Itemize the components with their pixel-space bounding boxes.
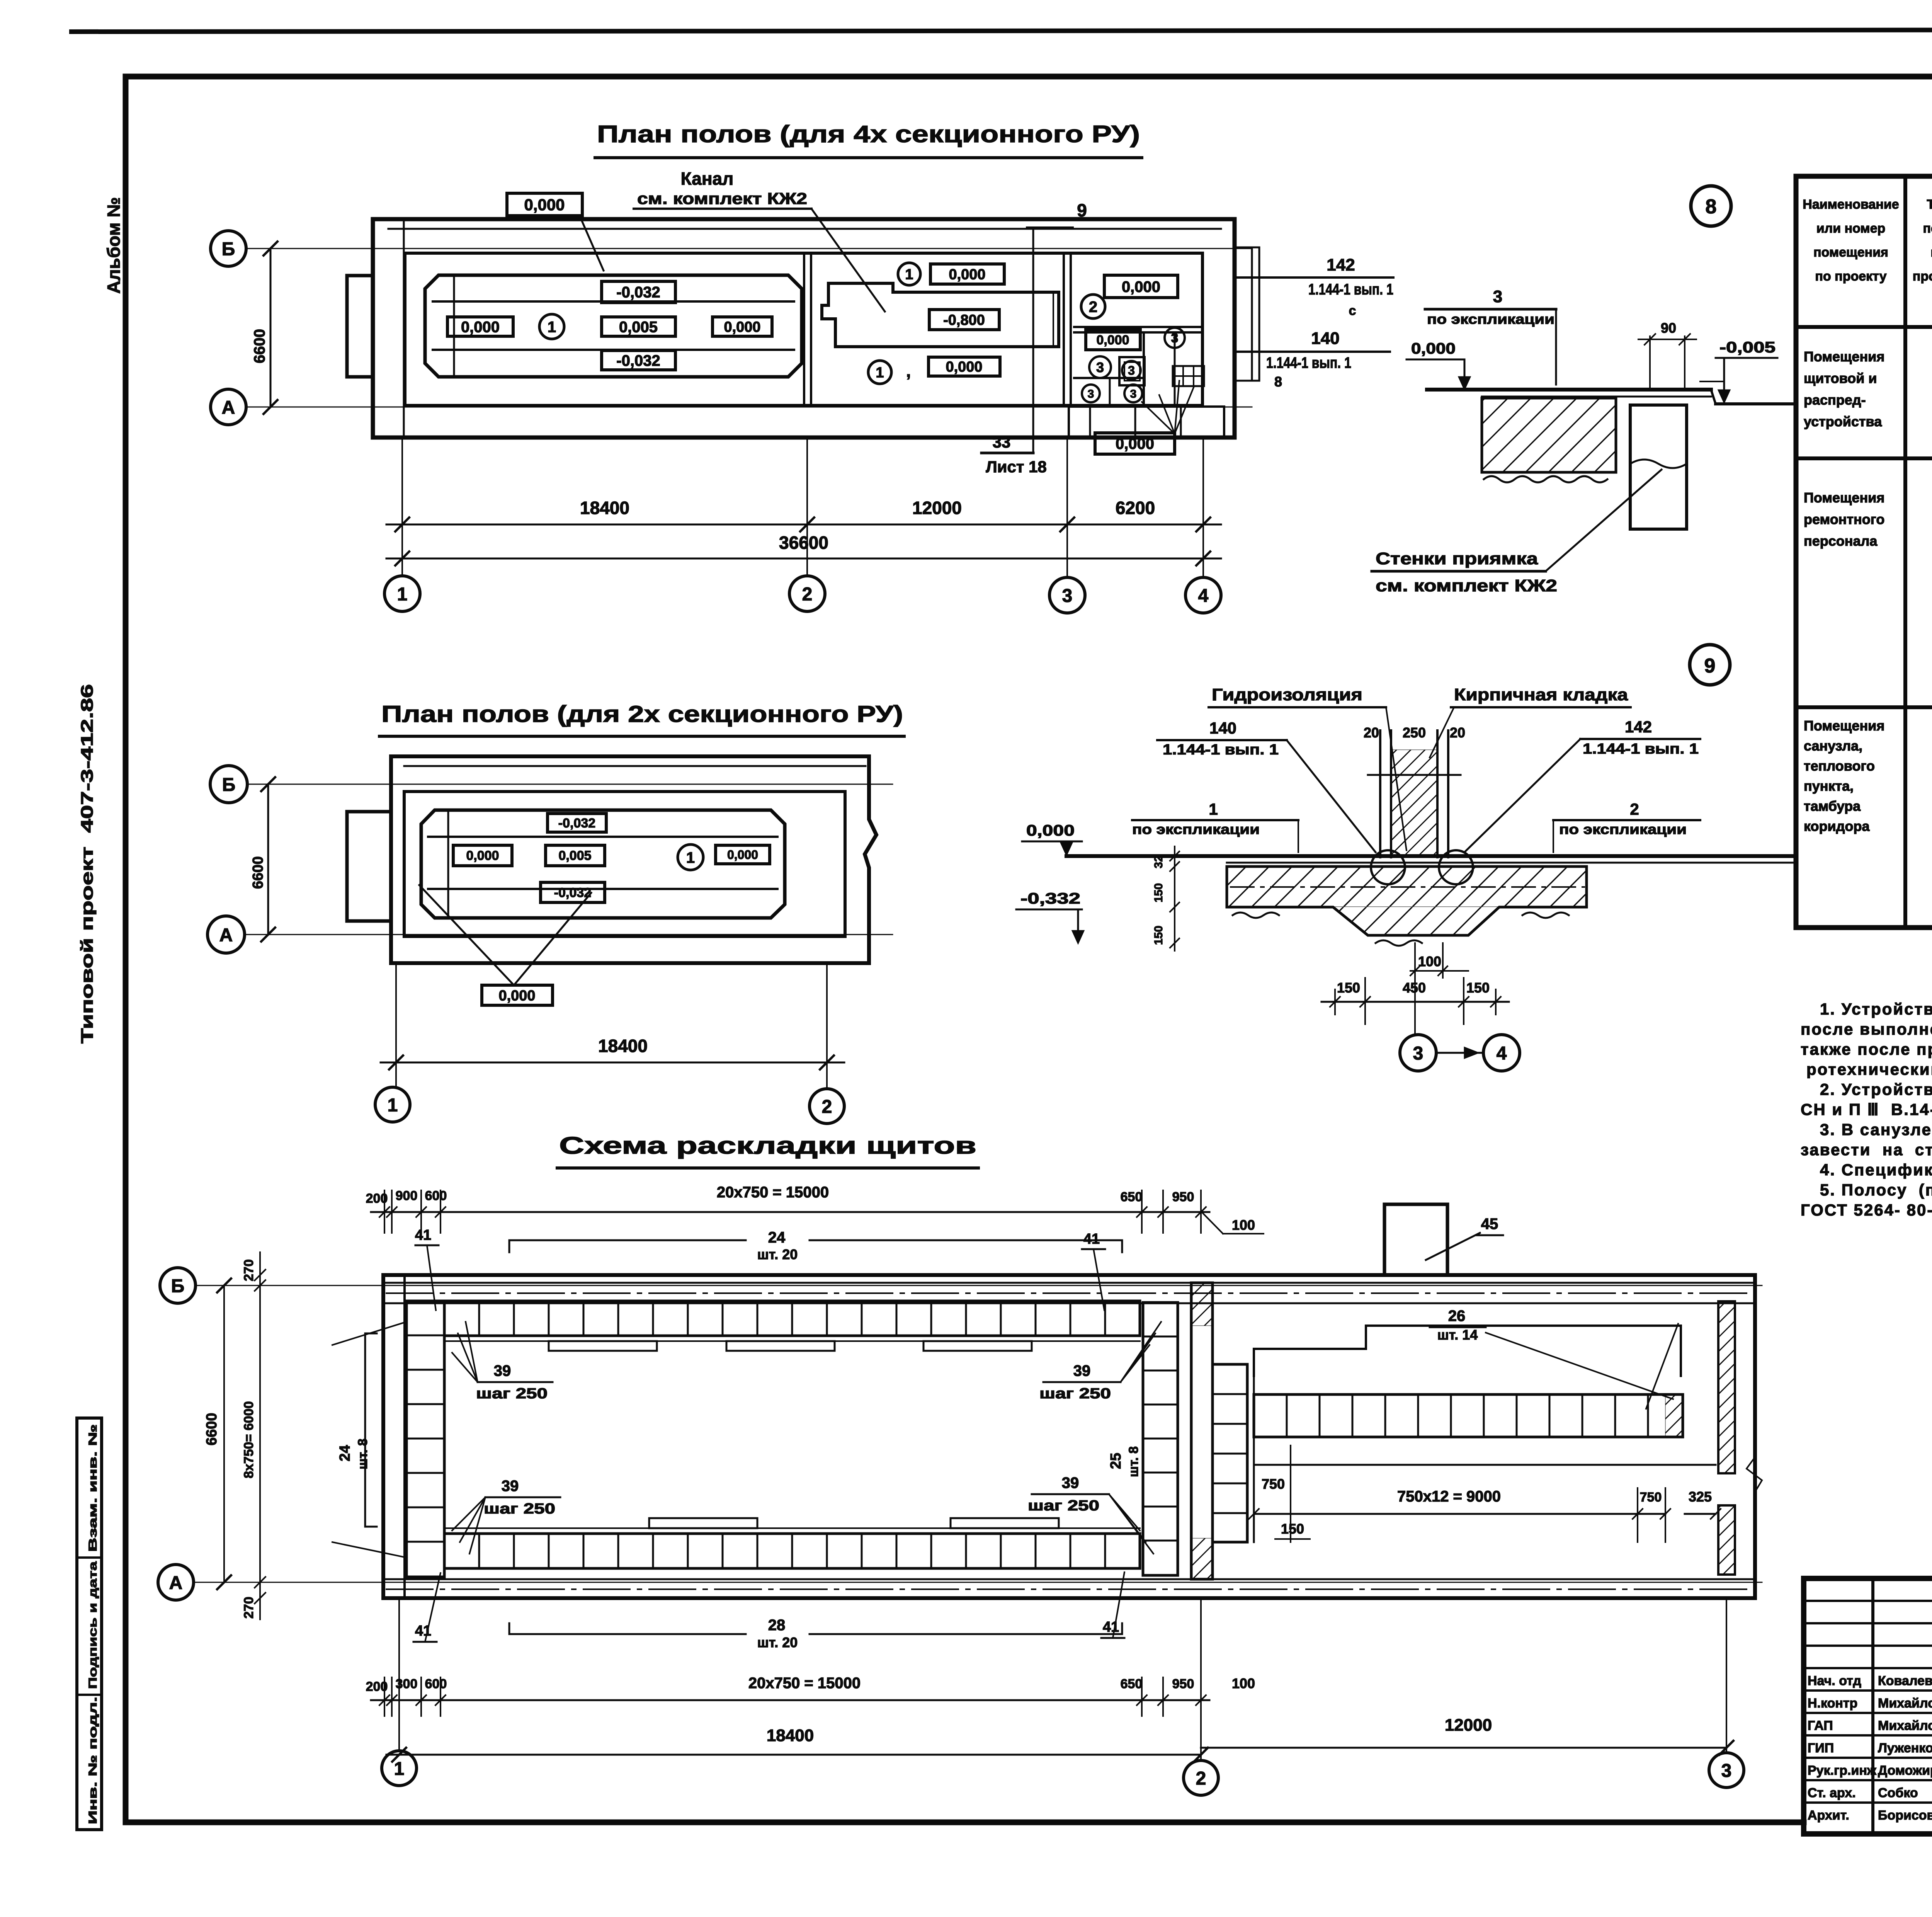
svg-text:Нач. отд: Нач. отд: [1808, 1674, 1861, 1688]
schema top panel row: [444, 1301, 1140, 1336]
detail 9 brick wall: [1379, 730, 1381, 857]
svg-text:-0,005: -0,005: [1719, 339, 1776, 356]
svg-text:1. Устройство полов и подстила: 1. Устройство полов и подстилающих слоев…: [1820, 1000, 1932, 1018]
svg-text:0,000: 0,000: [946, 359, 982, 375]
svg-text:750: 750: [1640, 1490, 1662, 1505]
svg-text:0,005: 0,005: [558, 848, 591, 863]
svg-text:950: 950: [1172, 1190, 1194, 1204]
plan 1 top wall inner line: [388, 228, 1221, 230]
svg-text:200: 200: [366, 1191, 388, 1206]
plan 1 building outer wall: [373, 219, 1235, 438]
svg-text:33: 33: [993, 433, 1011, 451]
svg-text:8х750= 6000: 8х750= 6000: [241, 1401, 256, 1478]
plan 1 middle room pit outline: [822, 283, 1059, 347]
svg-text:А: А: [169, 1573, 183, 1593]
plan 1 level box 0,000 bottom with leaders: [1095, 433, 1175, 454]
svg-text:Инв. № подл.: Инв. № подл.: [87, 1697, 99, 1824]
detail 9 node circle: [1690, 645, 1730, 685]
svg-text:Борисова: Борисова: [1878, 1808, 1932, 1823]
svg-text:щитовой и: щитовой и: [1804, 370, 1877, 386]
svg-text:Собко: Собко: [1878, 1786, 1918, 1800]
schema vertical dims 270 / 8x750=6000 / 270: [259, 1252, 261, 1619]
svg-text:2: 2: [1196, 1768, 1206, 1789]
schema bottom dims: [384, 1677, 385, 1716]
svg-text:142: 142: [1625, 718, 1652, 736]
schema panel column right of wall: [1213, 1364, 1247, 1542]
svg-text:СН и П Ⅲ В.14-72.: СН и П Ⅲ В.14-72.: [1801, 1100, 1932, 1119]
svg-text:0,000: 0,000: [1026, 822, 1075, 839]
plan 1 dim line 18400/12000/6200: [401, 495, 403, 537]
plan 1 room mark 2: [1081, 295, 1105, 318]
plan 1 left porch: [347, 276, 373, 377]
plan 2 column circle 2: [810, 1089, 844, 1124]
svg-text:12000: 12000: [912, 498, 962, 518]
plan 2 axis drop lines: [395, 963, 397, 1088]
svg-text:0,000: 0,000: [524, 196, 565, 214]
plan 2 level box 0,000 left: [453, 845, 512, 866]
plan 1 axis line А: [246, 407, 1252, 408]
svg-text:-0,800: -0,800: [943, 312, 985, 329]
svg-text:Схема раскладки щитов: Схема раскладки щитов: [559, 1132, 976, 1159]
detail 9 slab axis dash-dot: [1231, 886, 1584, 888]
plan 2 inner room: [404, 792, 845, 936]
svg-text:140: 140: [1311, 329, 1339, 348]
svg-text:100: 100: [1232, 1217, 1255, 1233]
schema lower line section 2-3: [1253, 1376, 1255, 1394]
svg-text:пола: пола: [1923, 221, 1932, 236]
detail 9 column circles 3 and 4: [1414, 943, 1416, 1035]
svg-text:Ст. арх.: Ст. арх.: [1808, 1786, 1856, 1800]
schema axis lines: [196, 1285, 1762, 1286]
svg-text:Б: Б: [222, 239, 235, 259]
svg-text:4: 4: [1198, 586, 1209, 606]
svg-text:0,000: 0,000: [949, 267, 985, 283]
svg-text:ГИП: ГИП: [1808, 1741, 1834, 1755]
svg-text:1.144-1 вып. 1: 1.144-1 вып. 1: [1266, 354, 1351, 371]
svg-text:12000: 12000: [1445, 1716, 1492, 1735]
svg-text:20: 20: [1364, 725, 1379, 741]
svg-text:20х750 = 15000: 20х750 = 15000: [748, 1675, 861, 1692]
svg-text:или номер: или номер: [1816, 221, 1886, 236]
paper top edge line: [71, 29, 1932, 32]
svg-text:1.144-1 вып. 1: 1.144-1 вып. 1: [1308, 281, 1393, 298]
svg-text:Б: Б: [171, 1276, 185, 1296]
svg-text:39: 39: [502, 1478, 519, 1495]
plan 2 top wall inner line: [404, 765, 866, 767]
schema middle wall axis 2: [1191, 1283, 1213, 1579]
plan 1 left outer step: [403, 219, 405, 438]
svg-text:600: 600: [425, 1677, 447, 1691]
svg-text:коридора: коридора: [1804, 818, 1870, 834]
svg-text:142: 142: [1327, 255, 1355, 274]
detail 9 slab with pit: [1227, 867, 1587, 935]
svg-text:3: 3: [1171, 331, 1179, 346]
svg-text:100: 100: [1232, 1675, 1255, 1691]
svg-text:3: 3: [1062, 586, 1073, 606]
schema bottom panel row: [444, 1534, 1140, 1568]
plan 2 level box 0,000 below with V leader: [482, 985, 553, 1005]
svg-text:ротехническим и сантехническим: ротехническим и сантехническим чертежам.: [1806, 1060, 1932, 1078]
schema section 2-3 block 26 outline: [1254, 1326, 1681, 1376]
svg-text:Михайлова: Михайлова: [1878, 1696, 1932, 1711]
plan 1 axis-3 wall: [1063, 253, 1065, 405]
svg-text:,: ,: [906, 362, 911, 381]
schema column circle 1: [382, 1751, 417, 1786]
plan 2 dim 18400: [395, 970, 397, 1074]
detail 9 rubble dots: [1233, 913, 1569, 946]
svg-text:250: 250: [1403, 725, 1426, 741]
svg-text:также после прокладки всех под: также после прокладки всех подпольных ко…: [1801, 1040, 1932, 1058]
svg-text:950: 950: [1172, 1677, 1194, 1691]
svg-text:распред-: распред-: [1804, 392, 1866, 408]
plan 1 dim line 36600: [386, 558, 1221, 560]
plan 1 level box -0,032 bottom: [602, 351, 675, 370]
plan 1 WC fixture: [1119, 357, 1145, 385]
svg-text:0,000: 0,000: [727, 848, 758, 862]
svg-text:41: 41: [1083, 1231, 1100, 1247]
svg-text:100: 100: [1418, 953, 1441, 969]
svg-text:6600: 6600: [250, 856, 266, 889]
svg-text:200: 200: [366, 1679, 388, 1694]
plan 1 right rooms partitions: [1074, 326, 1202, 328]
schema door rects over bottom row: [649, 1518, 757, 1528]
svg-text:3. В санузле и тепловом пункт: 3. В санузле и тепловом пункте 1 ряд пли…: [1820, 1120, 1932, 1139]
svg-text:Ковалев: Ковалев: [1878, 1674, 1932, 1688]
schema vertical dim 6600: [223, 1285, 225, 1582]
svg-text:270: 270: [241, 1597, 256, 1619]
svg-text:0,005: 0,005: [619, 318, 658, 335]
svg-text:теплового: теплового: [1804, 758, 1875, 774]
svg-text:ГАП: ГАП: [1808, 1718, 1833, 1733]
svg-text:3: 3: [1096, 359, 1104, 375]
svg-text:Наименование: Наименование: [1803, 197, 1899, 212]
svg-text:тамбура: тамбура: [1804, 798, 1861, 814]
svg-text:см. комплект КЖ2: см. комплект КЖ2: [1376, 576, 1557, 595]
plan 2 level box 0,000 right: [716, 845, 770, 864]
plan 1 axis-2 wall: [803, 253, 805, 405]
svg-text:Доможирова: Доможирова: [1878, 1763, 1932, 1778]
svg-text:проекту: проекту: [1913, 269, 1932, 284]
svg-text:650: 650: [1121, 1677, 1143, 1691]
svg-text:325: 325: [1689, 1489, 1712, 1505]
svg-text:26: 26: [1448, 1308, 1466, 1325]
svg-text:3: 3: [1413, 1043, 1423, 1064]
svg-text:39: 39: [1062, 1474, 1079, 1491]
plan 1 inner room outline: [405, 253, 1202, 405]
svg-text:36600: 36600: [779, 533, 828, 553]
svg-text:0,000: 0,000: [461, 318, 500, 335]
svg-text:шт. 8: шт. 8: [1126, 1446, 1141, 1477]
svg-text:Лист 18: Лист 18: [986, 458, 1047, 476]
detail 8 pit wall: [1630, 405, 1687, 529]
svg-text:шт. 20: шт. 20: [757, 1634, 798, 1650]
svg-text:150: 150: [1337, 980, 1360, 996]
svg-text:Канал: Канал: [681, 169, 734, 189]
plan 1 axis line Б: [246, 248, 1252, 249]
svg-text:25: 25: [1108, 1453, 1124, 1469]
svg-text:0,000: 0,000: [1411, 340, 1456, 357]
svg-text:750: 750: [1262, 1476, 1285, 1492]
schema right outer break: [1747, 1457, 1762, 1492]
schema axis circle А: [158, 1565, 194, 1600]
svg-text:Б: Б: [222, 775, 236, 795]
plan 1 level box 0,000 left: [447, 317, 513, 336]
detail 8 floor line: [1427, 388, 1711, 392]
svg-text:39: 39: [1073, 1362, 1091, 1379]
svg-text:см. комплект КЖ2: см. комплект КЖ2: [637, 189, 807, 208]
detail 8 rubble under slab: [1484, 476, 1607, 482]
svg-text:20х750 = 15000: 20х750 = 15000: [717, 1184, 829, 1201]
svg-text:3: 3: [1130, 388, 1137, 400]
plan 1 room mark 1 + 0,000 (middle top): [898, 263, 920, 285]
svg-text:по экспликации: по экспликации: [1559, 821, 1687, 837]
plan 2 column circle 1: [375, 1087, 410, 1122]
schema bracket 24 шт.8 (left, rotated): [364, 1333, 366, 1527]
plan 1 level box 0,005: [602, 317, 675, 336]
svg-text:персонала: персонала: [1804, 533, 1878, 549]
schema block 45 on top: [1384, 1204, 1447, 1275]
svg-text:шаг 250: шаг 250: [484, 1501, 555, 1517]
left margin stamp box (Инв/Подпись/Взам): [77, 1418, 102, 1830]
svg-text:45: 45: [1481, 1216, 1498, 1233]
svg-text:санузла,: санузла,: [1804, 738, 1862, 754]
drawing frame: [126, 74, 1932, 80]
svg-text:150: 150: [1466, 980, 1490, 996]
svg-text:1: 1: [1209, 800, 1218, 818]
plan 1 window grid right: [1173, 366, 1204, 386]
plan 1 level box -0,800: [929, 310, 999, 330]
svg-text:32: 32: [1152, 855, 1165, 868]
svg-text:-0,332: -0,332: [1020, 890, 1080, 907]
detail 9 weld circles at wall base: [1371, 850, 1405, 884]
svg-text:1: 1: [388, 1095, 398, 1115]
plan 2 title underline: [379, 735, 904, 738]
schema left panel column: [406, 1301, 444, 1577]
svg-text:18400: 18400: [767, 1726, 814, 1745]
plan 1 room marks 3: [1165, 328, 1185, 348]
svg-text:1.144-1 вып. 1: 1.144-1 вып. 1: [1583, 741, 1699, 757]
svg-text:шаг 250: шаг 250: [1028, 1498, 1099, 1514]
svg-text:1: 1: [397, 584, 408, 604]
svg-text:2: 2: [802, 584, 813, 604]
svg-text:41: 41: [1103, 1619, 1119, 1635]
title block outer: [1804, 1578, 1932, 1834]
svg-text:ГОСТ 5264- 80-Т2-Δ4-602120.: ГОСТ 5264- 80-Т2-Δ4-602120.: [1801, 1201, 1932, 1219]
detail 9 left vertical dims 32/150/150: [1174, 846, 1175, 951]
svg-text:41: 41: [415, 1227, 431, 1243]
svg-text:9: 9: [1077, 200, 1087, 220]
svg-text:Рук.гр.инж: Рук.гр.инж: [1808, 1763, 1877, 1778]
svg-text:Типовой проект 407-3-412.86: Типовой проект 407-3-412.86: [78, 684, 97, 1044]
svg-text:А: А: [219, 925, 233, 945]
plan 2 building outer wall: [391, 756, 876, 963]
svg-text:1: 1: [394, 1759, 405, 1779]
svg-text:5. Полосу (поз. 39) приварить: 5. Полосу (поз. 39) приварить к рифленке…: [1820, 1181, 1932, 1199]
svg-text:150: 150: [1281, 1521, 1304, 1537]
svg-text:3: 3: [1721, 1760, 1732, 1781]
svg-text:8: 8: [1274, 374, 1282, 390]
detail 8 outside ground line: [1711, 390, 1716, 404]
plan 1 level box 0,000 (room 3): [1086, 330, 1140, 350]
svg-text:0,000: 0,000: [1116, 435, 1154, 452]
svg-text:шт. 8: шт. 8: [355, 1439, 370, 1469]
plan 2 axis lines: [247, 784, 893, 785]
svg-text:24: 24: [768, 1229, 786, 1246]
svg-text:Михайлов: Михайлов: [1878, 1718, 1932, 1733]
schema right wall strips: [1718, 1301, 1735, 1473]
schema column circle 3: [1709, 1753, 1744, 1788]
plan 1 level box 0,000 (room 2): [1104, 275, 1178, 298]
svg-text:0,000: 0,000: [724, 319, 760, 335]
svg-text:3: 3: [1128, 364, 1135, 378]
svg-text:6600: 6600: [251, 329, 268, 363]
svg-text:устройства: устройства: [1804, 414, 1882, 429]
plan 2 level box 0,005: [546, 845, 605, 866]
plan 2 level box -0,032 bottom: [541, 882, 605, 902]
svg-text:1: 1: [686, 849, 695, 866]
svg-text:0,000: 0,000: [498, 988, 535, 1004]
svg-text:8: 8: [1706, 196, 1717, 218]
svg-text:шаг 250: шаг 250: [1039, 1386, 1111, 1402]
svg-text:150: 150: [1152, 926, 1165, 945]
svg-text:3: 3: [1088, 388, 1094, 400]
detail 9 floor lines: [1066, 854, 1795, 858]
explication table frame: [1796, 176, 1932, 928]
svg-text:по: по: [1930, 245, 1932, 260]
svg-text:6200: 6200: [1116, 498, 1155, 518]
svg-text:-0,032: -0,032: [616, 352, 660, 369]
svg-text:9: 9: [1704, 655, 1716, 677]
svg-text:Гидроизоляция: Гидроизоляция: [1212, 685, 1362, 704]
plan 1 bottom entrance steps: [1069, 407, 1224, 438]
svg-text:90: 90: [1661, 320, 1676, 336]
svg-text:-0,032: -0,032: [558, 816, 595, 831]
svg-text:28: 28: [768, 1617, 786, 1634]
svg-text:А: А: [222, 397, 235, 418]
schema axis circle Б: [160, 1268, 196, 1303]
svg-text:Взам. инв. №: Взам. инв. №: [87, 1424, 99, 1552]
svg-text:Архит.: Архит.: [1808, 1808, 1849, 1823]
schema column circle 2: [1184, 1760, 1218, 1795]
plan 1 callout 0,000 with leader: [507, 193, 582, 216]
svg-text:3: 3: [1493, 287, 1502, 306]
svg-text:с: с: [1349, 303, 1356, 318]
svg-text:после выполнения приямков и ка: после выполнения приямков и каналов по ч…: [1801, 1020, 1932, 1038]
detail 8 node circle: [1691, 186, 1731, 226]
plan 1 axis circle Б: [211, 231, 246, 266]
svg-text:Тип: Тип: [1927, 197, 1932, 212]
plan 1 axis drop lines: [401, 438, 403, 576]
svg-text:270: 270: [241, 1259, 256, 1281]
svg-text:шаг 250: шаг 250: [476, 1386, 548, 1402]
schema bracket 24 шт.20 (top): [509, 1239, 746, 1241]
svg-text:1: 1: [876, 365, 884, 381]
svg-text:39: 39: [494, 1362, 511, 1379]
svg-text:0,000: 0,000: [1122, 278, 1160, 295]
plan 1 right outside steps: [1251, 247, 1253, 381]
schema door rects under top row: [549, 1341, 657, 1351]
svg-text:План полов (для 2х секционного: План полов (для 2х секционного РУ): [381, 701, 903, 727]
svg-text:150: 150: [1152, 883, 1165, 902]
plan 1 room mark 1: [539, 314, 564, 339]
svg-text:Стенки приямка: Стенки приямка: [1376, 549, 1538, 568]
svg-text:6600: 6600: [204, 1413, 220, 1445]
svg-text:750х12 = 9000: 750х12 = 9000: [1397, 1488, 1501, 1505]
schema panel row section 2-3: [1254, 1394, 1683, 1437]
title block signature rows: [1804, 1600, 1932, 1602]
schema panel column left of wall: [1143, 1302, 1178, 1575]
plan 1 title underline: [595, 156, 1142, 159]
svg-text:0,000: 0,000: [1096, 333, 1129, 347]
svg-text:пункта,: пункта,: [1804, 778, 1854, 794]
svg-text:0,000: 0,000: [466, 848, 499, 863]
svg-text:18400: 18400: [598, 1036, 648, 1056]
svg-text:1: 1: [905, 267, 913, 283]
schema building outer walls: [383, 1275, 1755, 1598]
svg-text:Альбом №: Альбом №: [104, 197, 124, 294]
svg-text:600: 600: [425, 1188, 447, 1203]
svg-text:2: 2: [1630, 800, 1639, 818]
plan 2 axis circle Б: [210, 766, 247, 803]
svg-text:4. Спецификации см. лист 15.: 4. Спецификации см. лист 15.: [1820, 1161, 1932, 1179]
schema top dim row: [384, 1190, 385, 1233]
svg-text:140: 140: [1209, 719, 1236, 737]
plan 1 level box 0,000 right: [713, 317, 772, 336]
svg-text:2: 2: [822, 1096, 832, 1117]
svg-text:2. Устройство полов производит: 2. Устройство полов производить в соотве…: [1820, 1080, 1932, 1098]
plan 1 switchgear block room 1: [425, 275, 802, 377]
svg-text:4: 4: [1497, 1043, 1507, 1064]
svg-text:900: 900: [396, 1188, 418, 1203]
plan 1 level box -0,032 top: [602, 281, 675, 303]
svg-text:1.144-1 вып. 1: 1.144-1 вып. 1: [1163, 742, 1279, 758]
plan 1 vertical dim 6600: [270, 249, 272, 407]
detail 8 slab hatch: [1482, 398, 1616, 472]
plan 1 column circles 1-4: [384, 576, 420, 611]
svg-text:по экспликации: по экспликации: [1427, 311, 1554, 327]
svg-text:по экспликации: по экспликации: [1132, 821, 1260, 837]
svg-text:Кирпичная кладка: Кирпичная кладка: [1454, 685, 1628, 704]
svg-text:Подпись и дата: Подпись и дата: [87, 1561, 99, 1689]
title block signature columns: [1871, 1578, 1874, 1834]
svg-text:1: 1: [548, 318, 556, 335]
svg-text:650: 650: [1121, 1190, 1143, 1204]
svg-text:24: 24: [337, 1445, 353, 1461]
svg-text:Помещения: Помещения: [1804, 490, 1884, 506]
plan 2 room mark 1: [678, 844, 703, 870]
schema bracket 28 шт.20 (bottom): [509, 1633, 746, 1635]
svg-text:План полов (для 4х секционного: План полов (для 4х секционного РУ): [597, 121, 1140, 148]
svg-text:2: 2: [1089, 298, 1097, 315]
svg-text:-0,032: -0,032: [616, 284, 660, 301]
plan 1 axis circle А: [211, 389, 246, 425]
plan 2 vertical dim 6600: [267, 784, 269, 935]
svg-text:помещения: помещения: [1813, 245, 1888, 260]
svg-text:завести на стену вместо пл: завести на стену вместо плинтуса.: [1801, 1141, 1932, 1159]
plan 2 axis circle А: [207, 916, 245, 953]
svg-text:ремонтного: ремонтного: [1804, 511, 1884, 527]
svg-text:18400: 18400: [580, 498, 629, 518]
svg-text:Помещения: Помещения: [1804, 718, 1884, 734]
svg-text:шт. 20: шт. 20: [757, 1246, 798, 1262]
svg-text:шт. 14: шт. 14: [1437, 1327, 1478, 1343]
plan 2 left porch: [347, 812, 391, 921]
schema axis drop lines: [398, 1598, 400, 1751]
svg-text:по проекту: по проекту: [1815, 269, 1886, 284]
svg-text:Н.контр: Н.контр: [1808, 1696, 1857, 1711]
svg-text:Помещения: Помещения: [1804, 349, 1884, 364]
schema title underline: [557, 1166, 978, 1170]
